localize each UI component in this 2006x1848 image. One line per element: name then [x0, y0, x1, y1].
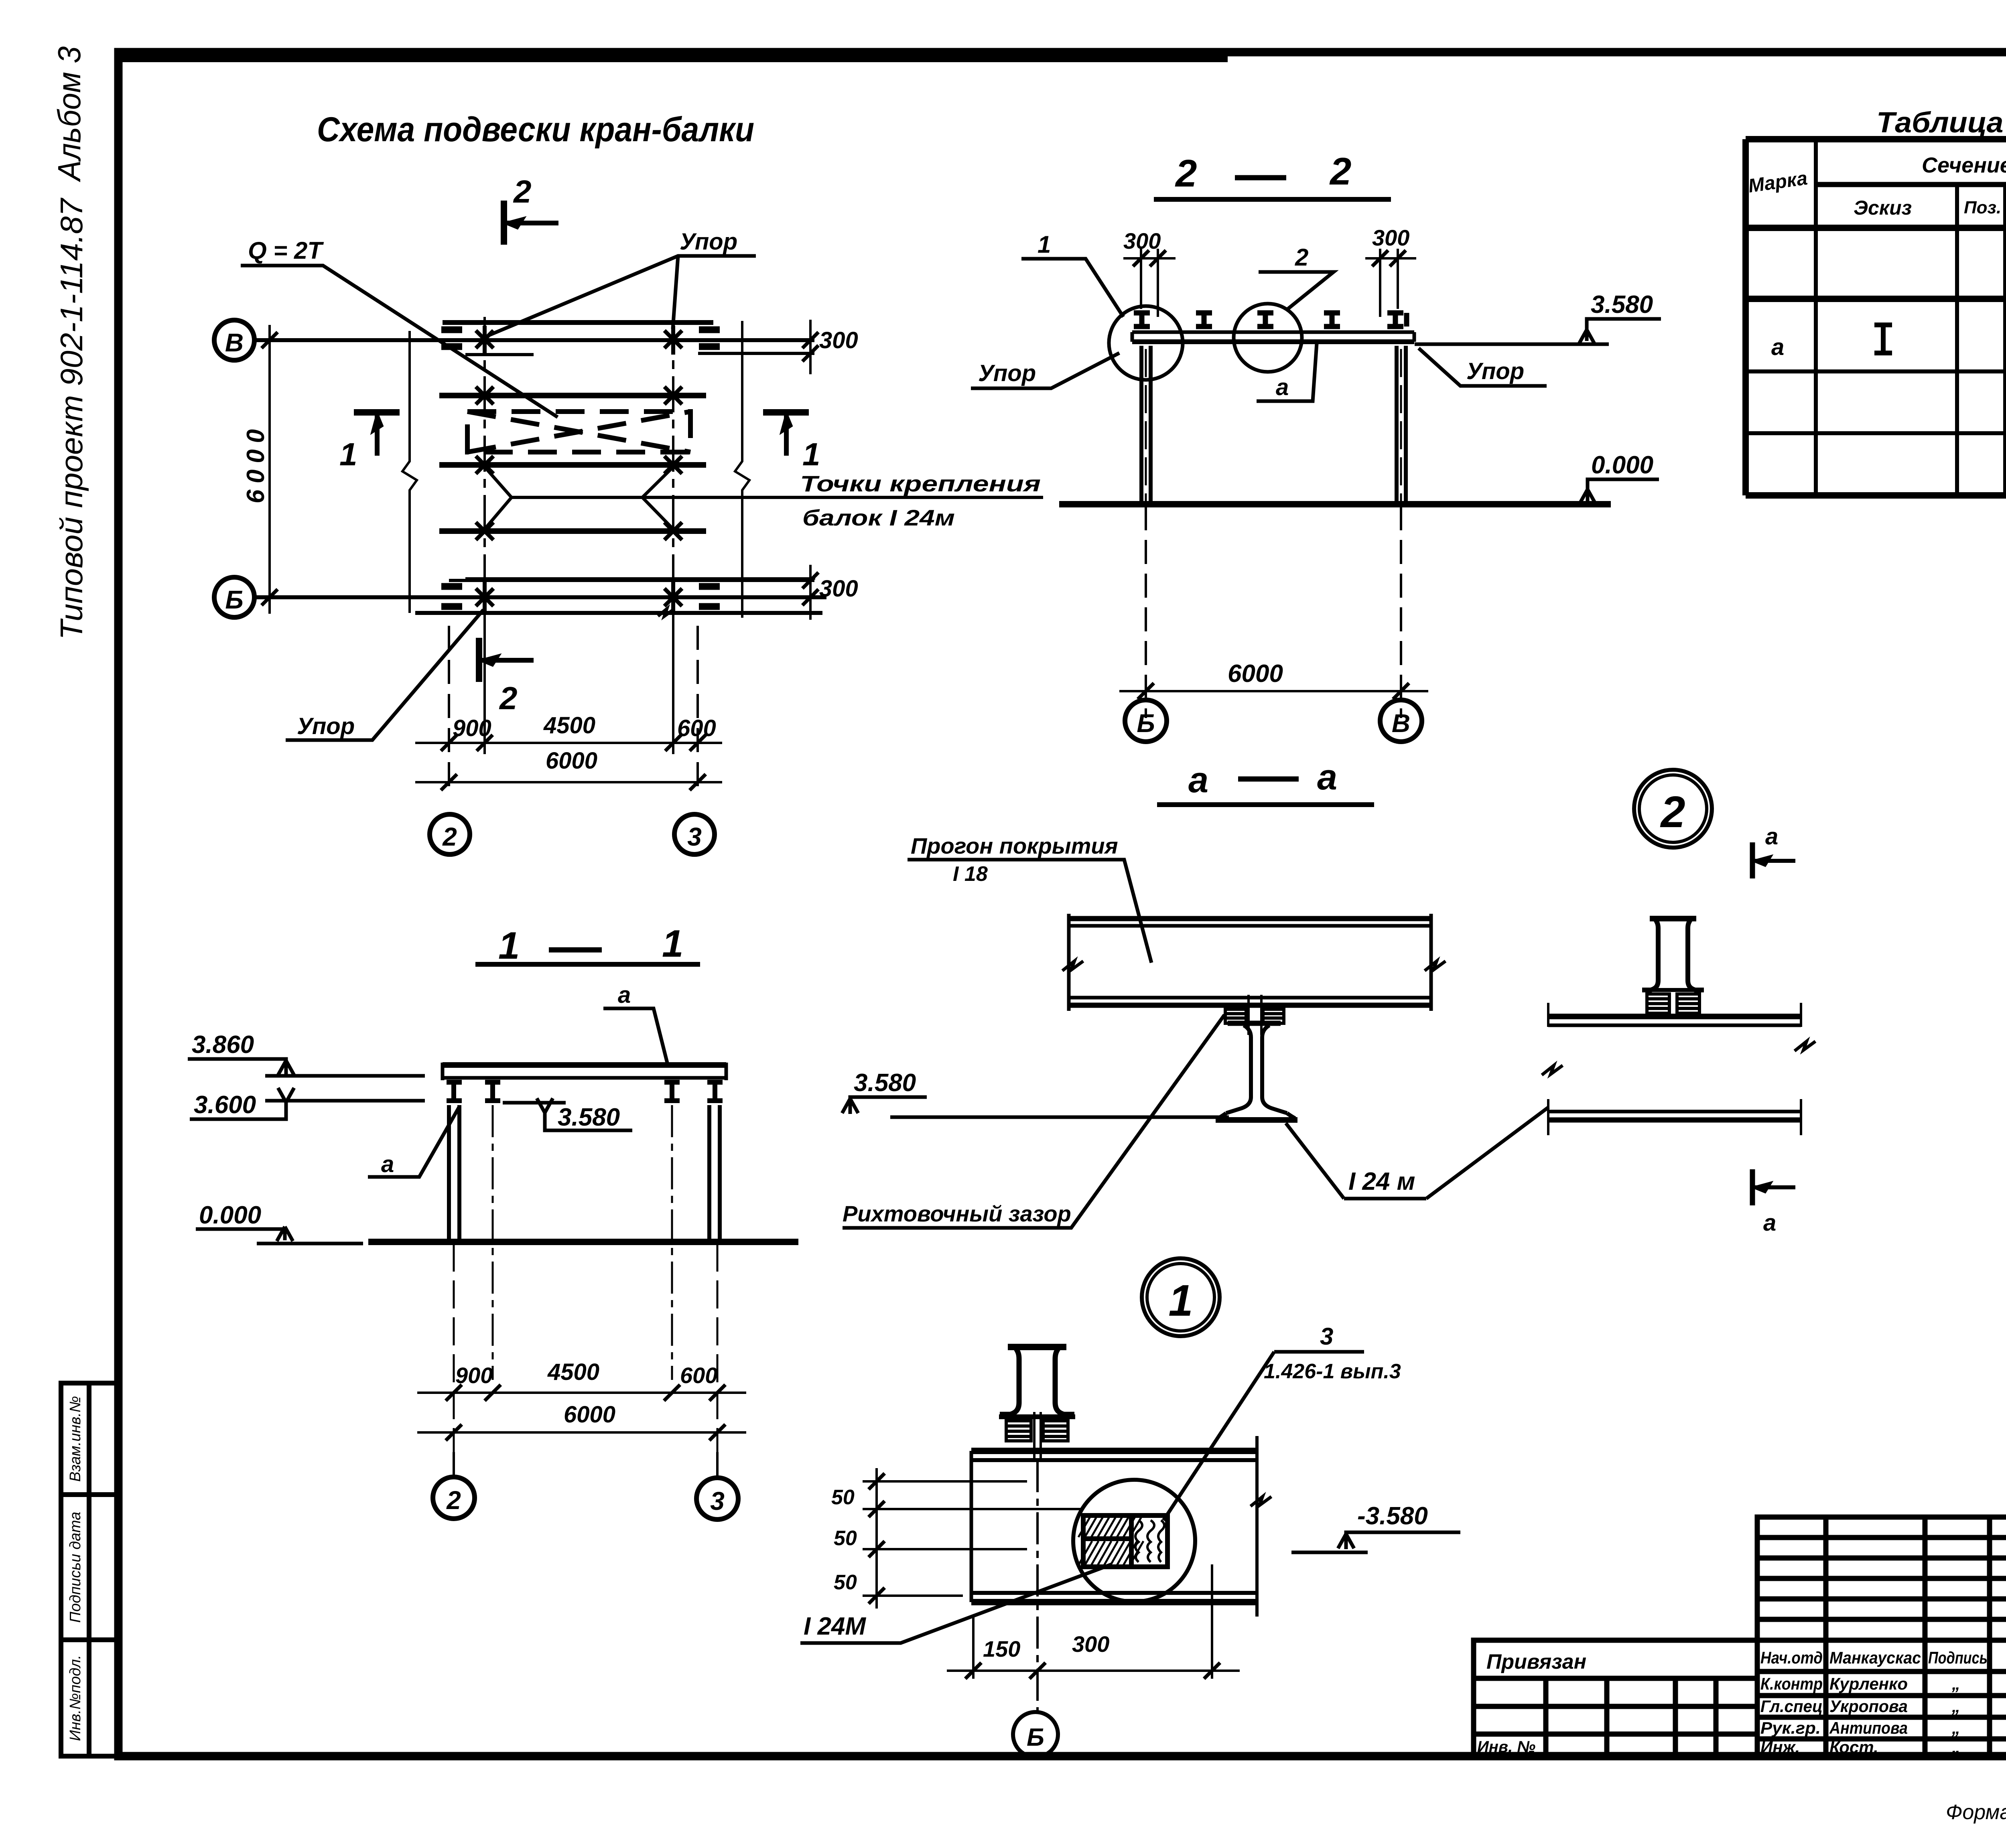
svg-text:Взам.инв.№: Взам.инв.№: [67, 1396, 84, 1482]
svg-text:50: 50: [834, 1571, 857, 1594]
suspended beam row 2: [439, 393, 706, 398]
callout hook points: [642, 496, 1043, 499]
beam side view: [1548, 1003, 1801, 1135]
svg-text:300: 300: [819, 576, 858, 602]
section title 1-1: [498, 922, 683, 967]
section title 2-2: [1175, 150, 1351, 195]
svg-text:Поз.: Поз.: [1964, 198, 2001, 217]
svg-text:Упор: Упор: [978, 360, 1036, 386]
svg-text:6000: 6000: [546, 748, 597, 774]
svg-text:2: 2: [1660, 787, 1685, 837]
svg-text:-3.580: -3.580: [1357, 1502, 1428, 1530]
svg-text:Инж.: Инж.: [1760, 1738, 1800, 1757]
hook points hexagon: [485, 467, 673, 529]
grid circle 3: [696, 1478, 738, 1519]
runway beam Б top edge: [449, 579, 814, 582]
svg-text:„: „: [1951, 1674, 1960, 1693]
I symbols under platform: [447, 1082, 723, 1101]
section mark a bottom: [1750, 1169, 1755, 1205]
svg-text:0.000: 0.000: [199, 1201, 261, 1229]
svg-text:Курленко: Курленко: [1829, 1674, 1908, 1693]
svg-text:Антипова: Антипова: [1829, 1718, 1908, 1737]
svg-text:I 24 м: I 24 м: [1348, 1168, 1415, 1195]
svg-text:Марка: Марка: [1747, 168, 1809, 197]
table grid: [1746, 139, 2006, 495]
svg-text:3: 3: [710, 1487, 725, 1515]
svg-text:Б: Б: [1137, 709, 1155, 738]
svg-text:К.контр: К.контр: [1760, 1674, 1823, 1693]
suspended beam row 3: [439, 462, 706, 468]
svg-text:1: 1: [1168, 1276, 1193, 1325]
svg-text:2: 2: [1329, 150, 1351, 193]
svg-text:В: В: [1392, 709, 1410, 738]
columns: [449, 1105, 459, 1242]
svg-text:4500: 4500: [543, 712, 595, 738]
svg-text:3.580: 3.580: [558, 1104, 620, 1131]
svg-text:„: „: [1951, 1697, 1960, 1716]
column axes below ground: [453, 1243, 455, 1452]
bottom 300 dim: [809, 565, 812, 620]
grid circle В: [214, 320, 254, 360]
detail bubble 2: [1634, 770, 1712, 848]
svg-text:600: 600: [677, 715, 716, 741]
svg-text:2: 2: [442, 822, 457, 851]
svg-text:Q = 2Т: Q = 2Т: [248, 237, 324, 264]
svg-text:I 24М: I 24М: [804, 1613, 866, 1640]
grid line Б: [254, 595, 826, 599]
suspension axes dash-dot: [492, 1105, 494, 1380]
header texts: [1747, 151, 2006, 225]
section mark 2 top: [504, 201, 558, 245]
svg-text:Упор: Упор: [680, 229, 737, 255]
svg-text:а: а: [618, 982, 631, 1008]
svg-text:300: 300: [1372, 225, 1409, 250]
pad under I: [1647, 994, 1699, 1013]
svg-text:50: 50: [834, 1527, 857, 1550]
svg-text:Сечение: Сечение: [1922, 153, 2006, 177]
wall break line right: [735, 321, 749, 618]
svg-text:Схема подвески кран-балки: Схема подвески кран-балки: [317, 110, 754, 149]
fastening unit: [1078, 1515, 1167, 1567]
svg-text:900: 900: [453, 715, 491, 741]
star nodes on axes: [476, 326, 682, 613]
bottom-left mini table: [61, 1383, 118, 1756]
runway beam В top edge: [443, 320, 713, 325]
svg-text:Подписьи дата: Подписьи дата: [67, 1512, 84, 1623]
50 dims: [863, 1468, 1083, 1609]
svg-text:2: 2: [499, 680, 518, 716]
svg-text:Укропова: Укропова: [1829, 1697, 1908, 1716]
grid circle В: [1380, 700, 1422, 742]
svg-text:балок I 24м: балок I 24м: [802, 505, 955, 530]
grid circle 3: [674, 814, 715, 854]
svg-text:Альбом 3: Альбом 3: [51, 46, 87, 182]
bolt axis: [1036, 1460, 1039, 1713]
column axis 2: [483, 317, 486, 626]
grid line В: [254, 338, 814, 342]
svg-text:3: 3: [1320, 1323, 1333, 1350]
svg-text:1: 1: [802, 436, 820, 472]
svg-text:а: а: [1771, 334, 1784, 360]
svg-text:I 18: I 18: [953, 862, 988, 886]
svg-text:2: 2: [513, 174, 532, 209]
I section on top: [1642, 919, 1704, 990]
svg-text:Инв. №: Инв. №: [1477, 1738, 1535, 1756]
I beam symbols row: [1134, 313, 1407, 327]
svg-text:а: а: [1765, 824, 1778, 850]
bottom dim 900/4500/600: [415, 626, 722, 786]
grid circle Б: [214, 577, 254, 617]
svg-text:Б: Б: [1027, 1724, 1044, 1751]
svg-text:50: 50: [831, 1486, 855, 1509]
svg-text:Прогон покрытия: Прогон покрытия: [911, 833, 1118, 858]
fastening detail circle: [1073, 1480, 1195, 1602]
ground line: [368, 1239, 798, 1245]
svg-text:900: 900: [455, 1363, 493, 1388]
svg-text:1: 1: [498, 924, 520, 967]
svg-text:а: а: [1188, 760, 1208, 800]
dims 150 300: [947, 1564, 1240, 1679]
svg-text:Формат А2: Формат А2: [1946, 1801, 2006, 1824]
grid circle Б: [1125, 700, 1167, 742]
svg-text:300: 300: [1072, 1631, 1109, 1657]
svg-text:6000: 6000: [564, 1402, 615, 1428]
grid circle 2: [433, 1477, 475, 1519]
svg-text:1.426-1 вып.3: 1.426-1 вып.3: [1264, 1360, 1401, 1383]
svg-text:а: а: [1276, 374, 1289, 400]
svg-text:В: В: [225, 328, 244, 357]
I24 beam web cross: [1216, 1023, 1297, 1120]
pads: [1006, 1412, 1068, 1460]
svg-text:1: 1: [339, 436, 357, 472]
svg-text:3.580: 3.580: [1591, 291, 1653, 318]
detail bubble 1: [1142, 1258, 1220, 1336]
svg-text:а: а: [381, 1151, 394, 1177]
svg-text:Манкаускас: Манкаускас: [1829, 1648, 1921, 1667]
svg-text:0.000: 0.000: [1591, 451, 1653, 479]
stop plates upor on В beam: [441, 330, 720, 347]
svg-text:Точки крепления: Точки крепления: [800, 471, 1041, 496]
svg-text:Подпись: Подпись: [1928, 1648, 1988, 1667]
svg-text:3.580: 3.580: [854, 1069, 916, 1097]
svg-text:4500: 4500: [547, 1359, 599, 1385]
I glyph in sketch col: [1874, 325, 1892, 353]
crane bridge dashed rect: [467, 412, 690, 452]
svg-text:1: 1: [1038, 231, 1051, 258]
svg-text:„: „: [1951, 1718, 1960, 1737]
ground line: [1059, 501, 1611, 507]
svg-text:600: 600: [680, 1363, 717, 1388]
signature table: [1757, 1517, 2006, 1756]
wall break line left: [402, 331, 417, 613]
svg-text:2: 2: [1295, 244, 1308, 271]
detail circle on node 2: [1234, 304, 1302, 372]
svg-text:300: 300: [819, 327, 858, 353]
I section column top: [999, 1347, 1075, 1417]
svg-text:Нач.отд: Нач.отд: [1760, 1648, 1823, 1667]
svg-text:Б: Б: [225, 585, 243, 614]
svg-text:3.600: 3.600: [194, 1091, 256, 1119]
detail circle on node 1: [1109, 306, 1183, 380]
grid circle 2: [430, 814, 470, 854]
dims 900 4500 600: [417, 1393, 746, 1476]
section mark 1 left: [354, 412, 400, 456]
svg-text:3.860: 3.860: [192, 1031, 254, 1059]
svg-text:6000: 6000: [1228, 660, 1283, 688]
svg-text:Упор: Упор: [1466, 358, 1524, 384]
svg-text:Гл.спец: Гл.спец: [1760, 1697, 1823, 1716]
stop plates upor on Б beam: [441, 586, 720, 607]
svg-text:2: 2: [446, 1486, 461, 1515]
section mark 2 bottom: [479, 638, 534, 682]
svg-text:Рук.гр.: Рук.гр.: [1760, 1718, 1821, 1737]
platform beam: [443, 1062, 726, 1068]
runway beam В lower segs: [465, 353, 534, 356]
runway beam Б bottom edge: [415, 611, 822, 615]
svg-text:3: 3: [687, 822, 702, 851]
column axis 3: [672, 317, 674, 626]
svg-text:Таблица сечений и усилий: Таблица сечений и усилий: [1876, 107, 2006, 139]
section mark a top: [1750, 842, 1755, 878]
hanger pads: [1225, 995, 1284, 1035]
svg-text:150: 150: [983, 1636, 1020, 1661]
column left: [1141, 346, 1151, 504]
runway beam side view: [1132, 331, 1414, 334]
left margin stamp text: [51, 46, 89, 640]
svg-text:6000: 6000: [242, 429, 270, 503]
dim 6000: [1119, 506, 1428, 718]
section mark 1 right: [763, 412, 809, 456]
grid circle Б: [1013, 1712, 1058, 1757]
vertical dim 6000 line: [268, 325, 271, 614]
svg-text:а: а: [1317, 757, 1337, 797]
svg-text:Эскиз: Эскиз: [1854, 197, 1912, 219]
svg-text:„: „: [1951, 1738, 1960, 1757]
svg-text:Рихтовочный зазор: Рихтовочный зазор: [843, 1201, 1071, 1226]
column right: [1397, 346, 1406, 504]
data row: [1771, 333, 2006, 362]
svg-text:Инв.№подл.: Инв.№подл.: [67, 1655, 84, 1741]
svg-text:а: а: [1763, 1210, 1776, 1236]
suspended beam row 4: [439, 528, 706, 534]
section title a-a: [1188, 757, 1337, 800]
top 300 dim: [809, 320, 812, 374]
big beam: [971, 1436, 1257, 1617]
svg-text:Типовой проект 902-1-114.87: Типовой проект 902-1-114.87: [54, 197, 89, 640]
small left table: [1474, 1640, 1757, 1756]
svg-text:Кост.: Кост.: [1829, 1738, 1878, 1757]
svg-text:Упор: Упор: [297, 713, 355, 739]
svg-text:1: 1: [662, 922, 683, 965]
svg-text:Привязан: Привязан: [1486, 1650, 1586, 1674]
svg-text:2: 2: [1175, 152, 1197, 195]
purlin body: [1069, 914, 1431, 1011]
